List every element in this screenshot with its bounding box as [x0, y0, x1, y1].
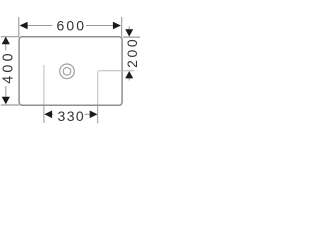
- dim200 line top segment: [128, 26, 130, 30]
- svg-text:400: 400: [1, 50, 17, 83]
- dim330 right arrow: [90, 111, 98, 119]
- dim200 drain extension line: [99, 70, 135, 72]
- svg-text:200: 200: [124, 37, 140, 68]
- svg-text:330: 330: [58, 108, 86, 124]
- dim330 left arrow: [44, 111, 52, 119]
- dim600 line right segment: [86, 25, 114, 27]
- dim330 left extension line upper faint: [43, 65, 45, 104]
- dim330 left extension line lower: [43, 104, 45, 123]
- dim400 bottom extension line: [1, 104, 19, 106]
- dim400 top extension line: [1, 36, 19, 38]
- dim200 top arrow (points down): [125, 29, 133, 36]
- dim330 right extension line upper faint: [97, 71, 99, 104]
- dim400 line top segment: [5, 37, 7, 50]
- dim400 bottom arrow: [2, 97, 10, 104]
- dim200 bottom arrow (points up): [125, 71, 133, 78]
- dim600 left arrow: [20, 22, 28, 30]
- dim400 top arrow: [2, 37, 10, 45]
- basin outline: [19, 37, 122, 106]
- drain circle inner: [63, 68, 71, 76]
- dim330 line left segment: [51, 113, 54, 115]
- dim400 line bottom segment: [5, 86, 7, 98]
- dim600 line left segment: [27, 25, 52, 27]
- dim200 top extension line: [123, 36, 140, 38]
- dim200 line bottom segment: [128, 78, 130, 81]
- svg-text:600: 600: [56, 18, 86, 34]
- dim330 line right segment: [85, 113, 91, 115]
- dim600 left extension line: [18, 17, 20, 37]
- dim600 right extension line: [121, 17, 123, 37]
- dim600 right arrow: [113, 22, 121, 30]
- dim330 right extension line lower: [97, 104, 99, 123]
- drain circle outer: [60, 64, 75, 79]
